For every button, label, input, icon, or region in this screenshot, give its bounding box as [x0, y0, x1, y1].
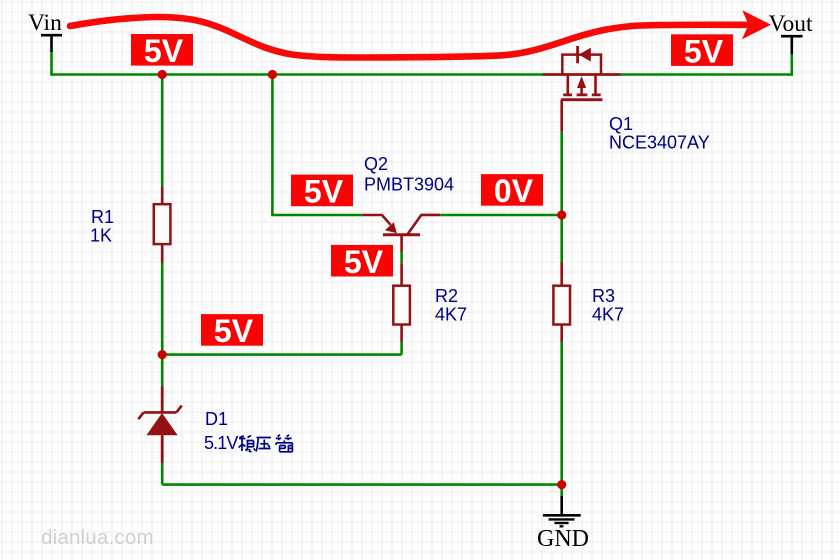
transistor Q1 NCE3407AY (P-MOSFET)	[543, 46, 621, 132]
svg-text:Vout: Vout	[769, 11, 813, 37]
svg-text:R1: R1	[91, 207, 114, 227]
svg-text:1K: 1K	[90, 225, 112, 245]
svg-text:Q1: Q1	[609, 114, 633, 134]
svg-text:Vin: Vin	[28, 10, 62, 36]
voltage label 5V box A (top left)	[131, 33, 193, 69]
svg-text:R3: R3	[592, 286, 615, 306]
resistor R3	[553, 263, 570, 342]
transistor Q2 PMBT3904	[363, 215, 441, 252]
svg-text:PMBT3904: PMBT3904	[364, 174, 454, 194]
zener diode D1 value chinese glyphs	[239, 435, 293, 452]
svg-text:4K7: 4K7	[435, 305, 467, 325]
svg-text:Q2: Q2	[364, 154, 388, 174]
junction dot at Vin/R1	[158, 70, 167, 79]
svg-text:NCE3407AY: NCE3407AY	[609, 132, 710, 152]
svg-text:R2: R2	[435, 286, 458, 306]
voltage label 5V box C (Q2 emitter side)	[291, 174, 353, 210]
resistor R2	[393, 263, 410, 341]
svg-text:5V: 5V	[344, 244, 384, 280]
wire: GND stub below junction	[560, 485, 563, 496]
wire: Q2 collector to node (gate net)	[440, 214, 562, 217]
wire: Vin stem (green part)	[50, 51, 53, 76]
wire: D1 bottom to bottom rail corner	[161, 463, 164, 485]
wire: R2 corner to junction at R1 column	[162, 353, 401, 356]
svg-text:5.1V: 5.1V	[204, 433, 238, 453]
wire: R2 bottom to corner	[400, 342, 403, 355]
svg-text:5V: 5V	[144, 33, 184, 69]
wire: Vout stem (green part)	[790, 53, 793, 75]
ground	[543, 496, 581, 526]
voltage label 0V box D (gate node)	[481, 173, 543, 209]
annotation red current path arrow	[70, 10, 771, 57]
wire: Q2 base segment	[400, 252, 403, 263]
zener diode D1	[138, 387, 181, 464]
wire: Q1 gate down to node	[560, 132, 563, 215]
wire: Q2 branch down from top rail	[271, 75, 274, 216]
voltage label 5V box F (zener node)	[201, 313, 263, 349]
port Vin tick	[41, 35, 62, 52]
wire: main top rail right (Q1 to Vout)	[621, 73, 792, 76]
svg-text:D1: D1	[205, 409, 228, 429]
wire: node down to R3	[560, 215, 563, 263]
wire: Q2 emitter feed horizontal	[271, 214, 363, 217]
wire: R1 branch down from top rail	[161, 75, 164, 188]
svg-text:5V: 5V	[214, 313, 254, 349]
wire: bottom rail (D1 to GND junction)	[162, 483, 562, 486]
port Vout tick	[781, 36, 803, 54]
resistor R1	[154, 187, 171, 263]
junction dot at GND node	[557, 480, 566, 489]
voltage label 5V box E (Q2 base)	[331, 244, 393, 280]
wire: R3 bottom to GND junction	[560, 342, 563, 485]
svg-text:4K7: 4K7	[592, 305, 624, 325]
junction dot at gate node	[557, 210, 566, 219]
svg-text:5V: 5V	[304, 174, 344, 210]
svg-text:5V: 5V	[684, 33, 724, 69]
svg-text:0V: 0V	[494, 173, 534, 209]
svg-text:GND: GND	[537, 526, 589, 552]
junction dot at R1/D1 node	[158, 350, 167, 359]
wire: R1 bottom to junction and down to D1	[161, 263, 164, 387]
junction dot at Q2 branch	[268, 70, 277, 79]
voltage label 5V box B (top right)	[671, 33, 733, 69]
svg-text:dianlua.com: dianlua.com	[41, 526, 154, 549]
wire: main top rail left (Vin to Q1)	[52, 73, 544, 76]
